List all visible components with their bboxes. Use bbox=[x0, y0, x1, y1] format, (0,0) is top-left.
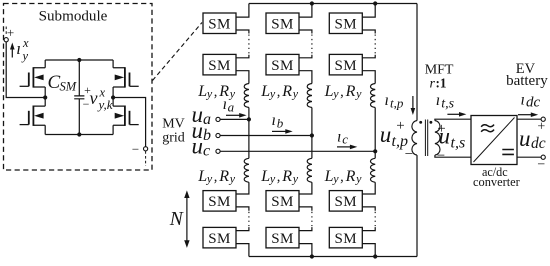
svg-text:y: y bbox=[206, 86, 213, 100]
svg-text:ı: ı bbox=[223, 96, 227, 113]
svg-text:SM: SM bbox=[208, 16, 230, 32]
wire input to left midpoint bbox=[6, 42, 45, 98]
wire leg 3 row2 to arm inductor bbox=[362, 71, 375, 84]
svg-text:ı: ı bbox=[337, 128, 341, 145]
svg-text:−: − bbox=[132, 141, 139, 156]
node: cap top bbox=[77, 58, 81, 62]
svg-text:grid: grid bbox=[162, 130, 185, 145]
SM box leg1 row1 bbox=[203, 13, 236, 34]
svg-text:R: R bbox=[218, 168, 229, 185]
svg-text:R: R bbox=[281, 83, 292, 100]
transistor Q3 upper-right bbox=[113, 68, 125, 87]
svg-text:,: , bbox=[277, 169, 281, 185]
phase a terminal and wire u_a bbox=[216, 117, 220, 121]
svg-text:SM: SM bbox=[208, 58, 230, 74]
svg-text:,: , bbox=[340, 169, 344, 185]
svg-text::1: :1 bbox=[436, 76, 447, 91]
svg-text:a: a bbox=[228, 99, 235, 114]
inductor L_y bottom arm leg 2 bbox=[307, 158, 312, 182]
svg-text:R: R bbox=[345, 168, 356, 185]
wire leg 3 row3-row4 (dotted continuation) bbox=[362, 207, 375, 211]
leg 2 top riser bbox=[299, 4, 312, 18]
transistor Q1 upper-left bbox=[33, 68, 45, 87]
wire leg 2 row4 to bottom bus bbox=[299, 244, 312, 257]
SM box leg2 row4 bbox=[266, 227, 299, 248]
inductor L_y bottom arm leg 3 bbox=[370, 158, 375, 182]
svg-text:,: , bbox=[340, 84, 344, 100]
wire inductor to SM row3 leg 2 bbox=[299, 182, 312, 194]
svg-text:y: y bbox=[332, 172, 339, 186]
svg-text:b: b bbox=[203, 127, 211, 144]
current arrow i_dc bbox=[518, 114, 532, 116]
svg-text:SM: SM bbox=[271, 194, 293, 210]
equals symbol bbox=[502, 150, 514, 155]
svg-text:+: + bbox=[537, 120, 545, 135]
current arrow i_a bbox=[226, 114, 240, 116]
wire inductor to phase node leg 2 bbox=[311, 108, 313, 136]
bottom dc bus bbox=[249, 256, 417, 258]
svg-text:u: u bbox=[380, 122, 392, 147]
svg-text:SM: SM bbox=[208, 231, 230, 247]
svg-text:dc: dc bbox=[526, 95, 541, 111]
svg-text:L: L bbox=[197, 168, 207, 185]
svg-text:SM: SM bbox=[335, 58, 357, 74]
svg-text:y: y bbox=[21, 49, 29, 63]
wire right midpoint to output bbox=[113, 98, 146, 147]
current arrow i_t,s bbox=[447, 113, 460, 115]
transformer primary winding bbox=[412, 121, 417, 156]
svg-text:Submodule: Submodule bbox=[39, 9, 108, 25]
svg-text:t,p: t,p bbox=[390, 95, 404, 110]
svg-text:,: , bbox=[277, 84, 281, 100]
svg-text:y: y bbox=[292, 172, 299, 186]
svg-text:SM: SM bbox=[335, 194, 357, 210]
wire inductor to phase node leg 3 bbox=[374, 108, 376, 152]
svg-text:SM: SM bbox=[60, 80, 77, 94]
dc output + lead bbox=[517, 118, 541, 120]
SM box leg3 row1 bbox=[329, 13, 362, 34]
SM box leg3 row4 bbox=[329, 227, 362, 248]
svg-text:y,k: y,k bbox=[97, 97, 113, 112]
svg-text:R: R bbox=[281, 168, 292, 185]
wire leg 1 row2 to arm inductor bbox=[236, 71, 249, 84]
node: left midpoint bbox=[43, 95, 47, 99]
svg-text:t,s: t,s bbox=[451, 134, 466, 151]
wire leg 2 row1-row2 (dotted continuation) bbox=[299, 30, 312, 34]
svg-text:ı: ı bbox=[272, 112, 276, 129]
svg-text:converter: converter bbox=[473, 175, 521, 189]
wire leg 3 row1-row2 (dotted continuation) bbox=[362, 30, 375, 34]
wire inductor to SM row3 leg 3 bbox=[362, 182, 375, 194]
SM box leg2 row3 bbox=[266, 191, 299, 212]
current arrow i_c bbox=[337, 146, 351, 148]
wire phase node to bottom inductor leg 1 bbox=[248, 119, 250, 158]
svg-text:t,s: t,s bbox=[441, 96, 454, 111]
polarity dot primary bbox=[419, 121, 422, 124]
transformer core bbox=[425, 120, 427, 157]
svg-text:SM: SM bbox=[271, 16, 293, 32]
wire phase node to bottom inductor leg 3 bbox=[374, 151, 376, 158]
top dc bus bbox=[249, 3, 417, 5]
wire leg 3 row4 to bottom bus bbox=[362, 244, 375, 257]
svg-text:y: y bbox=[355, 172, 362, 186]
SM box leg1 row3 bbox=[203, 191, 236, 212]
svg-text:−: − bbox=[405, 147, 413, 163]
dc output - lead bbox=[517, 156, 541, 158]
svg-text:L: L bbox=[324, 83, 334, 100]
svg-text:L: L bbox=[260, 83, 270, 100]
wire leg 2 row2 to arm inductor bbox=[299, 71, 312, 84]
node bottom bus leg3 bbox=[373, 254, 377, 258]
svg-text:N: N bbox=[169, 209, 184, 230]
svg-text:+: + bbox=[396, 118, 404, 134]
svg-text:−: − bbox=[537, 157, 545, 172]
svg-text:y: y bbox=[355, 86, 362, 100]
svg-text:ı: ı bbox=[385, 92, 389, 109]
svg-text:SM: SM bbox=[335, 16, 357, 32]
svg-text:ı: ı bbox=[16, 39, 21, 58]
inductor L_y top arm leg 3 bbox=[370, 84, 375, 108]
phase b terminal and wire u_b bbox=[216, 133, 220, 137]
wire leg 2 row3-row4 (dotted continuation) bbox=[299, 207, 312, 211]
current arrow i_b bbox=[272, 130, 286, 132]
current arrow i_t,p bbox=[412, 96, 414, 109]
polarity dot secondary bbox=[429, 121, 432, 124]
transformer secondary winding bbox=[435, 121, 440, 156]
node top bus leg3 bbox=[373, 1, 377, 5]
svg-text:−: − bbox=[437, 148, 445, 164]
node: right midpoint bbox=[111, 95, 115, 99]
wire leg 1 row3-row4 (dotted continuation) bbox=[236, 207, 249, 211]
svg-text:v: v bbox=[90, 88, 98, 108]
node bottom bus leg2 bbox=[310, 254, 314, 258]
leg 3 top riser bbox=[362, 4, 375, 18]
svg-text:L: L bbox=[197, 83, 207, 100]
svg-text:MV: MV bbox=[162, 116, 185, 131]
transistor Q2 lower-left bbox=[33, 106, 45, 125]
node: cap bottom bbox=[77, 132, 81, 136]
phase c terminal and wire u_c bbox=[216, 149, 220, 153]
dashed link to SM block bbox=[153, 23, 203, 81]
terminal - (submodule output) bbox=[144, 147, 148, 151]
svg-text:,: , bbox=[214, 84, 218, 100]
svg-text:dc: dc bbox=[531, 135, 546, 152]
svg-text:u: u bbox=[439, 123, 451, 148]
terminal + (submodule input) bbox=[5, 27, 7, 36]
submodule dashed box bbox=[4, 4, 153, 171]
svg-text:+: + bbox=[7, 25, 14, 40]
svg-text:SM: SM bbox=[271, 231, 293, 247]
svg-text:ı: ı bbox=[436, 92, 440, 109]
inductor L_y top arm leg 1 bbox=[244, 84, 249, 108]
wire inductor to SM row3 leg 1 bbox=[236, 182, 249, 194]
svg-text:y: y bbox=[332, 86, 339, 100]
SM box leg3 row3 bbox=[329, 191, 362, 212]
wire leg 1 row4 to bottom bus bbox=[236, 244, 249, 257]
capacitor C_SM bbox=[74, 60, 84, 135]
svg-text:y: y bbox=[269, 86, 276, 100]
svg-text:y: y bbox=[206, 172, 213, 186]
node phase c bbox=[373, 149, 377, 153]
svg-text:SM: SM bbox=[335, 231, 357, 247]
SM box leg2 row1 bbox=[266, 13, 299, 34]
svg-text:,: , bbox=[214, 169, 218, 185]
wire inductor to phase node leg 1 bbox=[248, 108, 250, 120]
wire primary to bottom bus bbox=[416, 155, 418, 256]
node phase b bbox=[310, 133, 314, 137]
svg-text:a: a bbox=[203, 111, 211, 128]
wire top bus to transformer primary bbox=[416, 4, 418, 121]
svg-text:y: y bbox=[292, 86, 299, 100]
svg-text:x: x bbox=[22, 36, 29, 50]
node top bus leg2 bbox=[310, 1, 314, 5]
svg-text:u: u bbox=[519, 126, 531, 151]
current arrow i_y^x bbox=[11, 49, 13, 58]
approx symbol bbox=[481, 125, 494, 132]
svg-text:SM: SM bbox=[271, 58, 293, 74]
svg-text:c: c bbox=[203, 143, 210, 160]
svg-text:ı: ı bbox=[521, 91, 525, 108]
inductor L_y top arm leg 2 bbox=[307, 84, 312, 108]
svg-text:L: L bbox=[260, 168, 270, 185]
SM box leg3 row2 bbox=[329, 54, 362, 75]
wire phase node to bottom inductor leg 2 bbox=[311, 136, 313, 159]
svg-text:c: c bbox=[342, 132, 348, 147]
svg-text:y: y bbox=[229, 172, 236, 186]
svg-text:y: y bbox=[229, 86, 236, 100]
top rail bbox=[45, 59, 113, 61]
svg-text:R: R bbox=[345, 83, 356, 100]
svg-text:u: u bbox=[192, 134, 204, 159]
bottom rail bbox=[45, 134, 113, 136]
svg-text:y: y bbox=[269, 172, 276, 186]
svg-text:L: L bbox=[324, 168, 334, 185]
leg 1 top riser bbox=[236, 4, 249, 18]
node phase a bbox=[247, 117, 251, 121]
SM box leg1 row4 bbox=[203, 227, 236, 248]
svg-text:SM: SM bbox=[208, 194, 230, 210]
SM box leg1 row2 bbox=[203, 54, 236, 75]
inductor L_y bottom arm leg 1 bbox=[244, 158, 249, 182]
secondary leads to converter bbox=[435, 119, 471, 157]
ac/dc converter box U1 bbox=[471, 116, 517, 165]
N measure arrow bbox=[186, 197, 188, 242]
svg-text:battery: battery bbox=[506, 73, 548, 89]
SM box leg2 row2 bbox=[266, 54, 299, 75]
svg-text:b: b bbox=[277, 116, 284, 131]
wire leg 1 row1-row2 (dotted continuation) bbox=[236, 30, 249, 34]
transistor Q4 lower-right bbox=[113, 106, 125, 125]
